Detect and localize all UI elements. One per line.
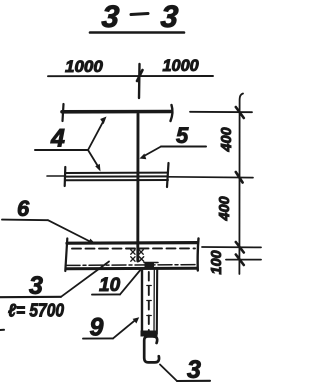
svg-text:4: 4 bbox=[50, 125, 65, 153]
svg-text:3: 3 bbox=[29, 272, 43, 300]
member left tick bbox=[64, 167, 67, 186]
right dimension line vertical bbox=[239, 94, 243, 275]
hanger channel (pos.9) bbox=[141, 263, 159, 337]
beam top edge bbox=[67, 241, 197, 245]
svg-text:3: 3 bbox=[187, 356, 201, 384]
svg-text:400: 400 bbox=[217, 196, 233, 221]
member right tick bbox=[167, 163, 169, 187]
svg-text:3: 3 bbox=[101, 0, 121, 34]
extension line y259.5 bbox=[226, 259, 261, 261]
flange left tick bbox=[63, 104, 64, 121]
channel top weld marks bbox=[144, 262, 158, 264]
channel left edge bbox=[141, 269, 143, 335]
section title 3-3 bbox=[90, 0, 184, 34]
label 6 bbox=[2, 196, 96, 244]
channel right edge inner bbox=[153, 270, 155, 333]
flange extension line to dim bbox=[190, 111, 252, 113]
channel bottom weld blob bbox=[141, 331, 158, 337]
label 3 (beam mark) bbox=[0, 262, 109, 301]
svg-text:100: 100 bbox=[209, 250, 225, 274]
extension line y247 bbox=[202, 246, 261, 248]
top dimension line bbox=[48, 75, 213, 77]
svg-text:ℓ= 5700: ℓ= 5700 bbox=[8, 301, 64, 321]
post web (pos.5) bbox=[136, 114, 139, 261]
channel hidden dashed centre bbox=[148, 272, 150, 332]
beam right end bbox=[196, 239, 199, 271]
centreline above flange bbox=[138, 64, 141, 98]
svg-text:1000: 1000 bbox=[65, 57, 103, 76]
weld x marks bbox=[131, 250, 144, 261]
svg-text:9: 9 bbox=[90, 314, 104, 342]
label 3 (bottom anchor mark) bbox=[160, 356, 210, 384]
svg-text:10: 10 bbox=[99, 275, 121, 296]
tick at dim crossing y177 bbox=[236, 172, 243, 183]
tick y247 bbox=[236, 242, 244, 253]
beam left end bbox=[65, 239, 67, 272]
tick at dim crossing y112 bbox=[236, 107, 244, 118]
beam lower thin line bbox=[66, 264, 196, 267]
label 4 bbox=[35, 117, 107, 172]
tick y259.5 bbox=[236, 255, 244, 266]
extension line to dim y177 bbox=[168, 176, 253, 179]
label 10 bbox=[92, 268, 142, 296]
label 9 bbox=[83, 314, 139, 342]
channel right edge outer bbox=[156, 269, 158, 334]
svg-text:6: 6 bbox=[17, 196, 30, 221]
beam bottom edge bbox=[66, 267, 197, 271]
runway beam (pos.3/6) bbox=[65, 239, 198, 272]
bottom C bracket (pos.3 anchor) bbox=[144, 336, 159, 362]
svg-text:3: 3 bbox=[160, 0, 180, 34]
dim tick centre bbox=[137, 70, 143, 81]
flange right tick bbox=[171, 105, 173, 121]
weld blob between beam and channel bbox=[145, 262, 155, 268]
middle double-angle member (pos.4 lower) bbox=[47, 163, 169, 187]
thin line left bbox=[47, 175, 65, 177]
beam hidden dashed line bbox=[72, 247, 195, 249]
svg-text:5: 5 bbox=[176, 123, 189, 148]
top flange (pos.4 plate) bbox=[62, 110, 171, 114]
svg-text:1000: 1000 bbox=[163, 57, 199, 75]
label 5 bbox=[140, 123, 207, 159]
svg-text:400: 400 bbox=[219, 127, 235, 152]
